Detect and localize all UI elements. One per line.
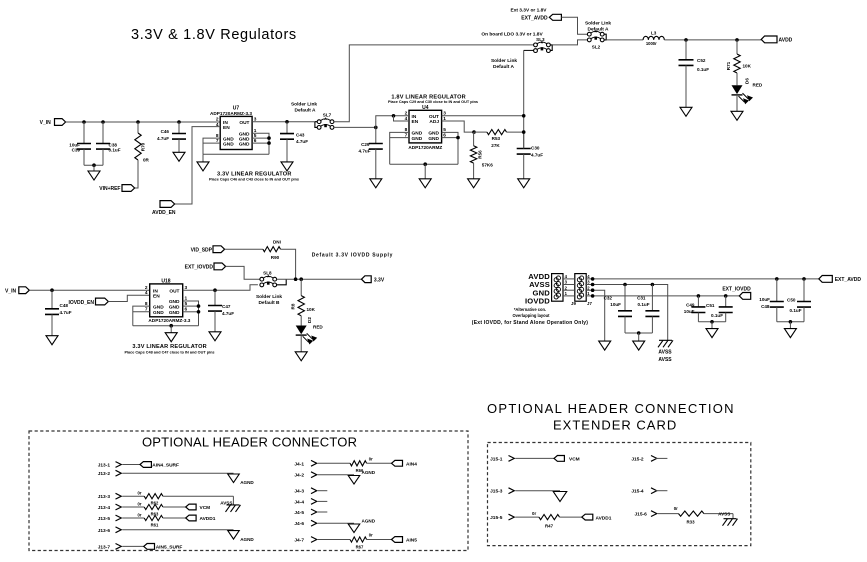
junction [267, 141, 271, 145]
wire V_IN to U18 IN [29, 289, 149, 291]
junction [294, 277, 298, 281]
wire J15-1 to VCM [515, 457, 554, 459]
wire SL7 left bracket [315, 122, 317, 128]
wire 1.8V out vertical to SL3 B [523, 50, 525, 148]
svg-text:4.7uF: 4.7uF [359, 149, 371, 154]
junction [285, 120, 289, 124]
wire J15-4 stub [655, 490, 667, 492]
wire J4-6 to AGND [318, 522, 354, 524]
svg-text:D6: D6 [745, 78, 750, 84]
junction [136, 120, 140, 124]
solder link SL3 [534, 40, 551, 52]
junction [82, 120, 86, 124]
svg-text:2: 2 [216, 117, 219, 123]
AVSS chassis symbol (mid) [658, 340, 673, 347]
svg-text:C31: C31 [637, 295, 646, 300]
svg-text:R47: R47 [545, 523, 554, 528]
svg-text:4.7uF: 4.7uF [296, 139, 308, 144]
ground under U4 [419, 179, 431, 188]
svg-text:D2: D2 [307, 317, 312, 323]
svg-text:R67: R67 [356, 545, 364, 550]
svg-text:Place Caps C46 and C43 close t: Place Caps C46 and C43 close to IN and O… [209, 178, 299, 182]
svg-text:VID_SDP: VID_SDP [191, 247, 213, 253]
capacitor C29 4.7uF [375, 127, 377, 143]
svg-text:AVSS: AVSS [718, 512, 730, 517]
svg-text:GND: GND [239, 141, 250, 147]
svg-text:J4-3: J4-3 [294, 489, 304, 495]
junction [522, 130, 526, 134]
wire J13-1 to AIN4_SURF [122, 464, 140, 466]
wire L3 to AVDD [664, 39, 761, 41]
svg-text:3.3V & 1.8V Regulators: 3.3V & 1.8V Regulators [131, 27, 297, 43]
svg-text:OUT: OUT [169, 288, 179, 294]
output flag AIN4_SURF [140, 462, 151, 468]
svg-text:J15-2: J15-2 [631, 456, 644, 462]
ground AGND (J4-2) [348, 476, 360, 485]
svg-text:OPTIONAL HEADER CONNECTION: OPTIONAL HEADER CONNECTION [487, 401, 735, 416]
wire SL2 right bracket [604, 34, 606, 40]
svg-text:SL2: SL2 [592, 45, 601, 50]
wire U4 OUT [442, 115, 524, 117]
svg-text:C43: C43 [296, 132, 305, 137]
svg-text:*Alternative con.: *Alternative con. [514, 307, 546, 312]
svg-text:R70: R70 [141, 142, 146, 151]
wire SL3 right bracket [550, 45, 552, 51]
output flag AVDD1 (J15-5) [582, 514, 593, 520]
junction [50, 288, 54, 292]
svg-text:OUT: OUT [239, 120, 249, 126]
svg-text:10K: 10K [307, 307, 316, 312]
input flag V_IN (middle) [19, 287, 30, 294]
svg-text:GND: GND [153, 310, 164, 316]
junction [169, 324, 173, 328]
output flag AIN5 (J4-7) [392, 537, 403, 543]
LED D6 RED [732, 85, 753, 103]
svg-text:4.7uF: 4.7uF [60, 310, 72, 315]
capacitor C51 0.1uF [725, 296, 727, 307]
svg-text:C49: C49 [686, 302, 695, 307]
svg-text:GND: GND [223, 141, 234, 147]
wire U4 pin5 gnd [442, 132, 458, 164]
svg-text:GND: GND [169, 299, 180, 305]
wire J15-2 stub [655, 457, 667, 459]
svg-text:3.3V LINEAR REGULATOR: 3.3V LINEAR REGULATOR [217, 171, 292, 177]
junction [472, 130, 476, 134]
svg-text:J13-7: J13-7 [98, 544, 111, 550]
U4 pin texts [412, 114, 440, 142]
svg-text:J15-4: J15-4 [631, 489, 644, 495]
wire down to AVSS chassis [732, 514, 734, 519]
junction [637, 331, 641, 335]
svg-text:J15-3: J15-3 [490, 489, 503, 495]
svg-text:J4-7: J4-7 [294, 538, 304, 544]
wire U7 OUT to SL7 [252, 121, 315, 123]
wire U4 pin6 gnd [442, 137, 458, 139]
wire U7 pin7 gnd [203, 142, 220, 144]
junction [710, 320, 714, 324]
junction [197, 310, 201, 314]
U7 pin numbers [216, 117, 257, 145]
svg-text:GND: GND [428, 136, 439, 142]
resistor R71 10K [736, 40, 738, 54]
svg-text:Solder Link: Solder Link [491, 58, 517, 64]
None [470, 146, 476, 163]
resistor R66 0r (J4-1) [318, 462, 350, 464]
wire to ground [170, 326, 172, 333]
ground (J15-3) [553, 492, 567, 502]
svg-text:AGND: AGND [362, 470, 376, 475]
capacitor C48 10uF (avdd) [776, 279, 778, 302]
ground under U18 [165, 333, 177, 342]
ground under C46 [173, 152, 185, 161]
svg-text:Solder Link: Solder Link [291, 101, 317, 107]
svg-text:RED: RED [753, 83, 763, 88]
wire U4 gnd rail [390, 163, 458, 165]
dashed box extender card [488, 443, 751, 546]
header J7 [575, 274, 586, 302]
ground AGND (J13-2) [228, 474, 240, 483]
svg-text:J13-2: J13-2 [98, 471, 111, 477]
wire U18 pin5 gnd [183, 305, 199, 307]
wire cap commons [84, 164, 103, 166]
svg-text:57K6: 57K6 [482, 163, 493, 168]
svg-text:J15-6: J15-6 [635, 512, 648, 518]
svg-text:C51: C51 [706, 303, 715, 308]
svg-text:4.7uF: 4.7uF [157, 136, 169, 141]
svg-text:On board LDO 3.3V or 1.8V: On board LDO 3.3V or 1.8V [481, 31, 543, 37]
output flag EXT_IOVDD [739, 293, 750, 300]
svg-text:C39: C39 [72, 148, 81, 153]
wire U18 pin1 gnd [183, 301, 199, 326]
svg-text:10uF: 10uF [759, 297, 770, 302]
svg-text:AVSS: AVSS [658, 350, 672, 356]
op-amp regulator U18 ADP1720ARMZ-3.3 [150, 284, 183, 317]
U18 pin numbers [145, 285, 188, 313]
svg-text:10K: 10K [743, 64, 752, 69]
svg-text:J13-3: J13-3 [98, 494, 111, 500]
wire to ground [93, 165, 95, 171]
svg-text:EXT_IOVDD: EXT_IOVDD [185, 265, 214, 271]
junction [177, 120, 181, 124]
inductor L3 1000r [643, 36, 664, 40]
svg-text:J7: J7 [587, 301, 592, 306]
svg-text:RED: RED [313, 325, 323, 330]
svg-text:Default 3.3V IOVDD Supply: Default 3.3V IOVDD Supply [312, 252, 393, 258]
wire C49/C51 common [698, 321, 725, 323]
wire U4 EN tie [394, 116, 410, 121]
capacitor C38 0.1uF [102, 122, 104, 144]
wire J13-7 to AIN5_SURF [122, 545, 143, 547]
header J9 [552, 274, 563, 302]
junction [802, 277, 806, 281]
wire D6 to ground [736, 95, 738, 112]
wire U18 gnd rail [133, 325, 199, 327]
junction [684, 38, 688, 42]
wire EN to AVDD_EN [175, 127, 221, 204]
svg-text:2: 2 [145, 285, 148, 291]
wire J4-5 stub [318, 511, 328, 513]
wire to ground [202, 154, 204, 162]
svg-text:J9: J9 [571, 301, 576, 306]
svg-text:4.7uF: 4.7uF [222, 311, 234, 316]
capacitor C31 0.1uF [651, 285, 653, 311]
junction [374, 126, 378, 130]
svg-text:J13-6: J13-6 [98, 528, 111, 534]
svg-text:L3: L3 [651, 31, 657, 36]
svg-text:Solder Link: Solder Link [256, 294, 282, 300]
svg-text:IN: IN [153, 288, 158, 294]
junction [591, 283, 595, 287]
ground under C29 [370, 179, 382, 188]
svg-text:10uF: 10uF [610, 302, 621, 307]
ground under R56 [468, 179, 480, 188]
svg-text:0r: 0r [674, 506, 678, 511]
input flag V_IN (top) [55, 119, 66, 126]
junction [697, 294, 701, 298]
ground GND row [599, 341, 611, 350]
output flag VCM (J13-4) [186, 504, 196, 510]
wire SL8 right bracket [277, 279, 287, 285]
svg-text:R33: R33 [686, 519, 695, 524]
wire C32/C31 common [625, 332, 652, 334]
svg-text:0.1uF: 0.1uF [697, 67, 709, 72]
svg-text:SL7: SL7 [323, 113, 332, 118]
svg-text:0.1uF: 0.1uF [638, 302, 650, 307]
ground under C32/C31 [633, 341, 645, 350]
svg-text:0r: 0r [138, 502, 142, 507]
svg-text:3.3V LINEAR REGULATOR: 3.3V LINEAR REGULATOR [132, 344, 207, 350]
wire J13-2 to AGND [122, 472, 233, 474]
None [734, 54, 740, 73]
wire U18 pin6 gnd [183, 311, 199, 313]
capacitor C52 0.1uF [685, 40, 687, 60]
svg-text:C32: C32 [604, 295, 613, 300]
svg-text:Place Caps C29 and C30 close t: Place Caps C29 and C30 close to IN and O… [388, 100, 478, 104]
pin numbers J7 [587, 274, 590, 296]
wire AVDD row [585, 278, 819, 280]
wire AVSS row [585, 285, 667, 341]
ground under C52 [680, 107, 692, 116]
svg-text:EXTENDER CARD: EXTENDER CARD [553, 418, 677, 433]
resistor R63 0r (J13-4) [122, 506, 144, 508]
ground under C49/C51 [706, 329, 718, 338]
svg-text:3.3V: 3.3V [374, 277, 385, 283]
wire U4 ADJ down [442, 121, 474, 132]
resistor R33 0r (J15-6) [658, 513, 679, 515]
wire EXT_AVDD to SL2 A [561, 17, 587, 34]
wire U18 pin8 gnd [133, 306, 150, 326]
wire J4-3 stub [318, 490, 328, 492]
junction [522, 114, 526, 118]
ground AGND (J13-6) [228, 531, 240, 540]
svg-text:Default A: Default A [588, 26, 609, 32]
svg-text:ADP1720ARMZ-3.3: ADP1720ARMZ-3.3 [210, 111, 252, 116]
svg-text:VCM: VCM [200, 505, 211, 511]
svg-text:J4-4: J4-4 [294, 499, 304, 505]
output flag EXT_AVDD (right) [819, 276, 833, 283]
svg-text:C46: C46 [161, 129, 170, 134]
svg-text:SL8: SL8 [263, 270, 272, 275]
wire U18 OUT to SL8 B [183, 285, 258, 290]
wire J13-3 to AVSS [232, 496, 234, 505]
input flag IOVDD_EN [96, 298, 109, 305]
junction [775, 277, 779, 281]
output flag VCM (J15-1) [554, 456, 564, 462]
svg-text:Default B: Default B [258, 300, 280, 306]
wire SL3 B stub [524, 49, 534, 51]
svg-text:R56: R56 [478, 150, 483, 159]
capacitor C46 4.7uF [178, 122, 180, 134]
svg-text:C29: C29 [361, 142, 370, 147]
wire SL3 to SL2 B [552, 40, 587, 45]
op-amp regulator U4 ADP1720ARMZ [409, 110, 442, 143]
svg-text:4.7uF: 4.7uF [531, 152, 543, 157]
junction [92, 163, 96, 167]
output flag AVDD1 (J13-5) [186, 515, 196, 521]
svg-text:AIN5: AIN5 [406, 538, 417, 544]
input flag VIN+REF [122, 185, 135, 192]
wire GND row [585, 290, 604, 341]
pin numbers J9 [565, 274, 568, 296]
svg-text:AGND: AGND [240, 480, 254, 485]
ground under C47 [209, 332, 221, 341]
svg-text:Place Caps C48 and C47 close t: Place Caps C48 and C47 close to IN and O… [124, 351, 214, 355]
svg-text:VCM: VCM [569, 457, 580, 463]
wire C48/C50 common [777, 321, 804, 323]
solder link SL7 [317, 117, 334, 129]
svg-text:27K: 27K [491, 143, 500, 148]
wire to ground [638, 333, 640, 341]
wire J13-6 to AGND [122, 529, 233, 531]
svg-text:AIN5_SURF: AIN5_SURF [156, 545, 183, 551]
resistor R61 0r (J13-5) [122, 517, 144, 519]
resistor R67 0r (J4-7) [318, 539, 350, 541]
junction [623, 283, 627, 287]
ground AGND (J4-6) [348, 524, 360, 533]
output flag AIN5_SURF [144, 544, 155, 550]
svg-text:10uF: 10uF [684, 309, 695, 314]
svg-text:GND: GND [412, 131, 423, 137]
svg-text:C50: C50 [787, 298, 796, 303]
dashed box optional header connector [29, 431, 468, 551]
LED D2 RED [296, 326, 317, 344]
wire J4-4 stub [318, 500, 328, 502]
resistor R62 0r (J13-3) [122, 495, 144, 497]
svg-text:GND: GND [169, 304, 180, 310]
svg-text:EN: EN [412, 119, 419, 125]
svg-text:J15-1: J15-1 [490, 456, 503, 462]
svg-text:R61: R61 [151, 522, 159, 527]
ground under D6 [731, 111, 743, 120]
wire SL7 A out to SL3 [334, 45, 534, 122]
svg-text:Default A: Default A [493, 64, 514, 70]
svg-text:ADJ: ADJ [429, 119, 439, 125]
resistor R90 DNI [225, 248, 263, 250]
svg-text:ADP1720ARMZ: ADP1720ARMZ [408, 145, 442, 150]
svg-text:C30: C30 [531, 146, 540, 151]
None [135, 133, 141, 160]
resistor R53 27K [474, 131, 487, 133]
capacitor C32 10uF [624, 285, 626, 311]
resistor R8 10K [300, 279, 302, 295]
svg-text:AVDD1: AVDD1 [200, 516, 216, 522]
junction [392, 114, 396, 118]
solder link SL8 [260, 275, 277, 287]
input flag AVDD_EN [160, 201, 175, 208]
junction [735, 38, 739, 42]
svg-text:OUT: OUT [429, 114, 439, 120]
junction [591, 277, 595, 281]
solder link SL2 [587, 30, 604, 42]
svg-text:C48: C48 [60, 303, 69, 308]
junction [213, 288, 217, 292]
wire J4-2 to AGND [318, 474, 354, 476]
svg-text:J4-1: J4-1 [294, 461, 304, 467]
svg-text:AIN4_SURF: AIN4_SURF [152, 463, 179, 469]
svg-text:4: 4 [145, 290, 148, 296]
output flag AVDD [761, 36, 777, 43]
svg-text:J4-6: J4-6 [294, 521, 304, 527]
svg-text:0.1uF: 0.1uF [711, 313, 723, 318]
wire to ground [711, 322, 713, 329]
svg-text:AIN4: AIN4 [406, 462, 417, 468]
resistor R70 0R [137, 122, 139, 133]
U7 pin texts [223, 120, 250, 148]
junction [591, 288, 595, 292]
AVSS chassis (J15-6) [723, 519, 738, 526]
resistor R56 57K6 [473, 132, 475, 146]
junction [299, 277, 303, 281]
capacitor C43 4.7uF [286, 122, 288, 134]
junction [651, 283, 655, 287]
wire J15-3 to ground [515, 490, 560, 492]
capacitor C50 0.1uF [803, 279, 805, 302]
svg-text:EN: EN [223, 125, 230, 131]
junction [591, 294, 595, 298]
wire IOVDD_EN to U18 EN [108, 295, 149, 301]
svg-text:AVDD1: AVDD1 [596, 515, 612, 521]
svg-text:0.1uF: 0.1uF [109, 148, 121, 153]
svg-text:Ext 3.3V or 1.8V: Ext 3.3V or 1.8V [511, 7, 548, 13]
wires J9 to J7 pins [563, 279, 575, 296]
wire U18 pin7 gnd [133, 311, 150, 313]
junction [423, 162, 427, 166]
svg-text:SL3: SL3 [536, 37, 545, 42]
svg-text:J13-1: J13-1 [98, 463, 111, 469]
AVSS chassis (J13-3) [226, 505, 241, 512]
svg-text:R90: R90 [271, 255, 280, 260]
wire U7 pin8 gnd [203, 138, 220, 154]
svg-text:GND: GND [428, 131, 439, 137]
wire EXT_IOVDD to SL8 A [226, 266, 260, 279]
svg-text:C48: C48 [761, 304, 770, 309]
wire U4 pin8 gnd [390, 132, 409, 164]
input flag VID_SDP [213, 246, 225, 253]
wire SL2 to L3 [606, 39, 643, 41]
ground under D2 [295, 352, 307, 361]
output flag 3.3V [362, 276, 372, 283]
svg-text:EXT_AVDD: EXT_AVDD [521, 15, 548, 21]
svg-text:EXT_IOVDD: EXT_IOVDD [722, 286, 751, 292]
svg-text:Overlapping layout: Overlapping layout [512, 313, 550, 318]
None [298, 296, 304, 316]
junction [724, 294, 728, 298]
capacitor C39 10uF [83, 122, 85, 144]
svg-text:Default A: Default A [295, 107, 316, 113]
wire to U4 IN [376, 116, 409, 128]
op-amp regulator U7 ADP1720ARMZ-3.3 [220, 116, 252, 149]
svg-text:J4-2: J4-2 [294, 473, 304, 479]
